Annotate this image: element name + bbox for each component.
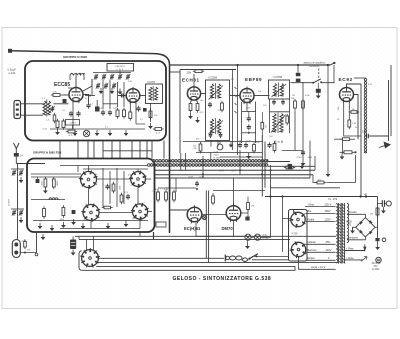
wire tap3 [306, 221, 336, 223]
svg-text:0,47: 0,47 [220, 171, 225, 173]
ground phono [317, 93, 319, 96]
capacitor C8a right of tube a [83, 95, 89, 105]
svg-text:10000: 10000 [57, 181, 59, 186]
rectifier bridge B250 C75 [356, 218, 375, 237]
resistor R23c top [343, 138, 350, 141]
svg-text:+C: +C [364, 192, 368, 196]
socket output cable [82, 250, 99, 267]
svg-text:Arancione: Arancione [348, 237, 359, 240]
wire tap4 [306, 243, 336, 245]
wire ec92 grid down [348, 103, 350, 119]
svg-text:220 V: 220 V [325, 202, 332, 206]
wire bus line 1 [155, 169, 315, 171]
svg-text:GELOSO - SINTONIZZATORE G.538: GELOSO - SINTONIZZATORE G.538 [173, 276, 272, 282]
svg-text:0,47: 0,47 [200, 177, 205, 179]
wire 315 vertical [314, 156, 316, 170]
inductor IF1 primary [210, 84, 213, 98]
svg-text:GRUPPO N 2982 F2/3: GRUPPO N 2982 F2/3 [33, 151, 62, 155]
resistor R23 10k [317, 181, 324, 184]
capacitor C25 det out [301, 151, 305, 153]
wire tube b anode to IF can [140, 95, 146, 97]
svg-text:N. 172: N. 172 [329, 197, 338, 201]
capacitor C21 ebf [247, 117, 251, 119]
wire gang vertical 1 [102, 80, 104, 109]
resistor R20a 10k 1W [199, 144, 202, 151]
svg-text:0,5µµF: 0,5µµF [8, 68, 17, 72]
resistor R18 det [302, 101, 305, 108]
terminal aerial input [8, 49, 12, 53]
wire box1 exit a7 [146, 141, 148, 159]
capacitor box1 dark mid [63, 99, 67, 103]
wire if mesh v1 [102, 168, 104, 207]
svg-text:a 240: a 240 [9, 71, 16, 75]
wire heater braid vertical [364, 78, 366, 153]
wire if mesh mid [31, 199, 65, 201]
box CIRCUITO C.A.F. [107, 64, 134, 72]
svg-text:CIRCUITO: CIRCUITO [115, 66, 126, 68]
transformer IF can N.270 [146, 84, 163, 104]
wire mid vertical d [239, 150, 241, 174]
wire band vertical v5 [210, 141, 212, 147]
trimmer C12 am antenna [12, 171, 16, 173]
ground if gB [62, 222, 64, 225]
tube ECC85 triode b [126, 89, 140, 103]
switch contacts AM-FM [235, 87, 237, 89]
wire drop to echk [169, 178, 171, 196]
svg-text:EC(H)81: EC(H)81 [184, 226, 201, 231]
ground left g1 [20, 177, 22, 180]
ground bridge left vertex [353, 227, 356, 229]
ground left g3 [42, 234, 44, 237]
resistor R3 [62, 121, 65, 128]
wire trimmer rail [93, 72, 131, 74]
junction dots top bus [236, 64, 238, 66]
wire box1 exit b [93, 141, 95, 159]
transformer T1 primary winding [336, 204, 338, 264]
wire switch to selector a [252, 255, 289, 257]
resistor R24 out stage [157, 192, 160, 200]
wire psu right rail [377, 197, 379, 239]
wire box1 exit e [151, 141, 153, 159]
wire bus line 3 [155, 177, 310, 179]
lamp dial 1 [245, 234, 251, 240]
wire low rail 188 [158, 187, 196, 189]
wire mid vertical c double b [264, 142, 266, 188]
resistor R26b mid [212, 196, 215, 203]
ground trimmer row b [111, 88, 113, 91]
capacitor C22c phono dark [316, 89, 321, 93]
svg-text:1k: 1k [95, 174, 97, 176]
wire box1 exit a [77, 141, 79, 159]
capacitor C15 if dark [36, 179, 40, 183]
wire bus line 2 [155, 174, 313, 176]
socket IF tube 1 [81, 172, 97, 188]
wire det vertical2 [302, 82, 304, 160]
ground c27 [377, 244, 379, 247]
inductor IF2 secondary [280, 84, 283, 97]
inductor L3 oscillator coil [70, 74, 84, 76]
junction dots band [202, 173, 204, 175]
switch mains [250, 254, 259, 259]
wire tap1 [305, 206, 336, 208]
wire band vertical v2 [202, 156, 204, 178]
wire ec92 b+ drop [360, 84, 362, 197]
wire if mesh t1b [31, 176, 81, 178]
wire braid top stub [354, 77, 366, 79]
resistor R0 input [53, 115, 56, 121]
resistor IF2b right [286, 116, 289, 123]
svg-text:4,7k: 4,7k [200, 112, 204, 114]
wire band vertical v7 [281, 141, 283, 144]
wire ebf cross2 [242, 132, 256, 134]
svg-text:25V: 25V [326, 240, 331, 244]
capacitor C10b [136, 107, 140, 109]
inductor L2 input transformer secondary [48, 101, 51, 115]
wire trimmer pair top [11, 168, 24, 170]
capacitor C19b if [126, 195, 130, 197]
ground box1 g5 [125, 130, 127, 133]
box C.REG [66, 120, 80, 126]
ground if g1 [39, 223, 41, 226]
wire box1 h96 [85, 95, 95, 97]
inductor L5 if coil [49, 198, 58, 200]
wire mid vertical b [237, 65, 239, 155]
svg-text:N.4324: N.4324 [372, 269, 380, 271]
wire tube b bottom drop [135, 103, 137, 124]
wire ebf drop a [241, 102, 243, 143]
ground if gC [73, 219, 75, 222]
wire antenna to input coil lower [21, 114, 44, 116]
capacitor C24 electrolytic 4uF [217, 144, 223, 150]
ground det [302, 160, 304, 163]
wire coil l3 ends [69, 76, 71, 81]
wire if2 lower mesh [270, 111, 290, 113]
svg-text:25V: 25V [374, 266, 379, 268]
wire long bus b [79, 238, 290, 240]
inductor IF2 primary [273, 84, 276, 97]
resistor R14 ech81 grid [196, 104, 199, 111]
svg-text:GRUPPO N 2620: GRUPPO N 2620 [63, 55, 88, 59]
resistor R8 if [52, 179, 55, 187]
capacitor C26 electrolytic dark [70, 240, 76, 250]
resistor R17 det [294, 101, 297, 108]
arrow IF2 tuning [272, 84, 287, 97]
wire interbox cross [103, 150, 152, 152]
resistor R7 if [44, 179, 47, 187]
tube DM70 [226, 206, 241, 221]
resistor R3b below creg [68, 130, 75, 133]
resistor R2 grid [56, 121, 59, 128]
wire mid vertical a [232, 70, 234, 151]
wire dropper mid vert [342, 141, 344, 154]
transformer IF2 assembly [269, 80, 290, 99]
wire if1 out to ebf grid [230, 95, 241, 97]
wire box1 h88 [68, 87, 72, 89]
wire ech81 anode up [193, 74, 195, 85]
wire mid shield top edge [180, 69, 236, 71]
wire heater braid upper [152, 160, 268, 163]
wire if mesh top2 [83, 168, 148, 170]
tube ECH81 [187, 87, 200, 100]
wire antenna to input coil upper [21, 103, 44, 105]
resistor R4b [123, 110, 126, 117]
svg-text:350V: 350V [214, 155, 220, 157]
tube ECC85 triode a [69, 88, 83, 102]
wire socketA top [293, 209, 295, 213]
svg-text:B250: B250 [347, 221, 353, 223]
wire det cross [282, 150, 303, 152]
svg-text:C75: C75 [347, 224, 352, 226]
wire ebf cross1 [242, 111, 256, 113]
wire psu top rail [265, 196, 378, 198]
resistor R13 ech81 cathode [189, 104, 192, 111]
wire socket drop a [86, 239, 88, 250]
capacitor box1 dark right [143, 108, 147, 112]
capacitor C0,5u low [195, 182, 199, 184]
socket IF tube 3 [83, 205, 99, 221]
capacitor C11 antenna series [14, 153, 19, 157]
svg-text:ECC85: ECC85 [54, 82, 70, 88]
plug mains [224, 255, 226, 262]
wire echk col b [208, 191, 210, 263]
ground box1 g2 [74, 130, 76, 133]
wire top bus right drop [390, 65, 392, 136]
wire box1 exit c [111, 141, 113, 159]
resistor R26 out stage [173, 192, 176, 200]
svg-text:Rosso: Rosso [308, 256, 316, 260]
capacitor C20 if1 [208, 103, 212, 105]
inductor IF2b primary [273, 114, 276, 133]
svg-text:125V: 125V [325, 217, 331, 221]
ground if g2 [51, 225, 53, 228]
wire secondary to bridge bottom [347, 237, 365, 240]
capacitor dm70 dark [245, 217, 249, 221]
wire if inter links [88, 188, 90, 205]
inductor IF1b primary [210, 119, 213, 133]
inductor L1 input transformer primary [43, 101, 46, 115]
ground ech81 g1 [190, 113, 192, 116]
wire dm70 up [233, 178, 235, 206]
trimmer C5b second row [96, 84, 100, 86]
terminal +B circle [386, 201, 391, 206]
svg-text:ECH81: ECH81 [182, 78, 200, 83]
wire ec92 cathode down [343, 103, 345, 130]
ground cb [382, 208, 384, 211]
switch phono [314, 79, 322, 83]
wire lamps left [196, 235, 245, 237]
ground mid g1 [230, 142, 232, 145]
arrow output audio [384, 142, 392, 149]
ground if g3 [82, 223, 84, 226]
resistor R6 jack [24, 242, 27, 248]
capacitor C22b phono dark [296, 79, 301, 82]
connector output jack left [12, 240, 20, 258]
wire right pair drop [388, 80, 390, 136]
svg-text:Anodico: Anodico [349, 211, 358, 214]
svg-text:N.2206: N.2206 [209, 75, 218, 79]
wire lamps right [261, 165, 271, 237]
svg-text:4700: 4700 [297, 157, 303, 159]
wire gang vertical 3 [117, 82, 119, 107]
wire if right links [145, 178, 151, 180]
wire dm70 right [241, 212, 248, 214]
wire tap2 [305, 212, 335, 214]
wire ebf drop c [255, 102, 257, 144]
lamp crystal circle [83, 130, 89, 136]
tube EC(H)81 [187, 207, 202, 222]
svg-text:0,47: 0,47 [232, 171, 237, 173]
wire phono left vert [297, 66, 299, 73]
svg-text:10000: 10000 [42, 181, 44, 186]
svg-text:0,5M: 0,5M [305, 95, 310, 97]
wire antenna down [15, 157, 17, 164]
ground left g2 [20, 217, 22, 220]
wire if bottom rail2 [60, 228, 140, 230]
ground box1 g4 [109, 130, 111, 133]
trimmer C5d second row [112, 84, 116, 86]
wire if mesh t5 [99, 212, 132, 214]
svg-text:1M: 1M [251, 206, 254, 208]
wire caf drop [119, 71, 121, 76]
wire if mesh t4 [97, 178, 131, 180]
wire heater ext a [268, 161, 290, 163]
capacitor C8b dark [95, 107, 100, 112]
ground trimmer row c [119, 89, 121, 92]
wire box1 h87 [103, 103, 118, 105]
wire mid vertical c double a [261, 135, 263, 197]
wire top bus B+ [170, 64, 331, 66]
capacitor C21b ebf [247, 126, 251, 128]
inductor IF1b secondary [217, 119, 220, 133]
svg-text:22k: 22k [187, 70, 192, 74]
resistor R5 agc [149, 111, 152, 118]
ground if g4 [107, 223, 109, 226]
wire box2 edge drop [153, 232, 155, 239]
resistor R1 grid 4,7k [53, 94, 60, 97]
svg-text:47k: 47k [128, 175, 131, 177]
svg-text:∿ Rete: ∿ Rete [346, 257, 355, 260]
wire box1 exit a5 [119, 141, 121, 159]
wire heater ext b [268, 165, 315, 167]
svg-text:1W: 1W [194, 148, 197, 150]
wire box1-box2 link drop [163, 141, 165, 159]
capacitor C9 [101, 111, 105, 113]
wire heater braid lower [150, 164, 268, 167]
enclosure IF group N.2982 [27, 159, 155, 233]
capacitor heater bypass dark [288, 164, 292, 169]
capacitor C6 [69, 112, 73, 114]
svg-text:C. A. F.: C. A. F. [116, 68, 123, 71]
svg-text:verde + 12 V: verde + 12 V [311, 266, 326, 269]
hook top bus end [330, 63, 334, 65]
wire gang vertical 2 [109, 80, 111, 109]
wire tube a bottom drop [72, 103, 74, 130]
svg-text:N.2991: N.2991 [214, 158, 222, 160]
wire if can down [150, 104, 152, 123]
lamp pilot small [202, 215, 206, 219]
wire phono rail right [322, 65, 335, 83]
capacitor C24d mid [267, 144, 271, 146]
wire dm70 down [233, 221, 235, 236]
wire ec92 plate right [354, 95, 359, 140]
wire socket4 bottom drop [139, 232, 141, 236]
inductor IF1 secondary [217, 84, 220, 98]
trimmer C5 fm tuning [126, 75, 130, 77]
ground agc [327, 171, 329, 174]
wire b+ feed long [270, 187, 340, 189]
resistor R19 ec92 [348, 120, 351, 127]
capacitor C19 if [105, 185, 109, 187]
wire echk col a [205, 191, 207, 259]
wire left vertical bus [17, 164, 19, 241]
svg-text:4,7Ω*: 4,7Ω* [292, 232, 298, 235]
wire band vertical v3 [210, 152, 212, 161]
resistor R12 22k [195, 70, 202, 73]
ground ech81 g2 [197, 117, 199, 120]
wire band vertical v4 [217, 141, 219, 147]
svg-text:0,47: 0,47 [189, 177, 194, 179]
svg-text:EL3510/4: EL3510/4 [310, 66, 321, 68]
svg-text:1000: 1000 [120, 186, 122, 190]
resistor R22 1k [286, 166, 293, 169]
wire bottom rail box1 [50, 128, 145, 130]
wire ecc85 interstage [83, 79, 92, 91]
connector antenna 300 ohm input [14, 101, 21, 119]
resistor R9 if [43, 209, 46, 217]
wire echk down [195, 223, 197, 236]
resistor R27 1M [247, 203, 250, 210]
wire agc arrow drop [327, 65, 329, 171]
resistor R4 [116, 110, 119, 117]
trimmer C1 fm tuning [94, 75, 98, 77]
tube EBF89 [240, 89, 254, 103]
wire box1 exit a6 [139, 141, 141, 159]
wire band vertical v6 [274, 141, 276, 144]
svg-text:N.2706: N.2706 [274, 75, 283, 79]
resistor R25 out stage [165, 192, 168, 200]
trimmer C15 am [19, 211, 23, 213]
transformer T1 core [339, 204, 341, 206]
inductor IF2b secondary [280, 114, 283, 133]
wire 10k run [313, 175, 317, 183]
wire if mesh v2 [109, 171, 111, 204]
wire det vertical [294, 111, 296, 151]
svg-text:10k: 10k [132, 218, 135, 220]
ground r22 [301, 163, 303, 166]
trimmer C0 input tuning [51, 107, 55, 109]
wire trimmer pair2 top [11, 208, 24, 210]
wire if mesh t1 [31, 173, 81, 175]
svg-text:6,3V: 6,3V [368, 84, 373, 86]
box small below box2 [156, 222, 166, 227]
capacitor IF1 bottom pair [209, 134, 213, 136]
wire socket out 1 [98, 257, 225, 259]
wire psu left vertical [282, 197, 284, 253]
resistor R16 ebf [261, 123, 264, 130]
wire box2 drop to jack [36, 232, 38, 253]
wire tube b grid [118, 95, 126, 97]
wire det drop [309, 141, 311, 178]
wire box1 to shield stub [170, 71, 181, 73]
transformer T1 secondary winding [347, 204, 349, 243]
wire band vertical v0 [180, 153, 182, 170]
wire phono dashed drop [318, 69, 320, 81]
wire mid bottom rail1 [183, 141, 262, 143]
resistor R11b if h [104, 206, 111, 209]
wire mid shield left edge [179, 70, 181, 154]
wire secondary to bridge top [347, 214, 365, 217]
capacitor C10 [108, 111, 112, 113]
